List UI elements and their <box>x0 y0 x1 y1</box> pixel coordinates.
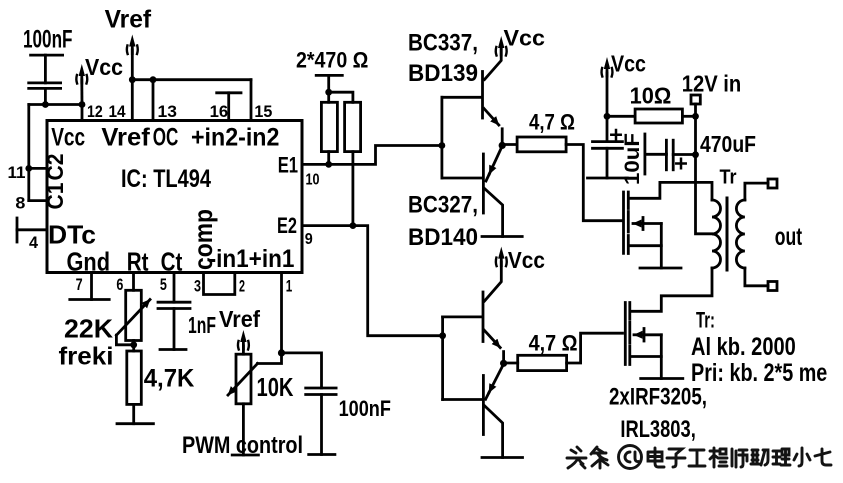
svg-text:Rt: Rt <box>127 247 149 277</box>
svg-text:2xIRF3205,: 2xIRF3205, <box>609 384 707 411</box>
svg-text:6: 6 <box>116 275 123 294</box>
node junction at pin 11 <box>25 165 32 172</box>
char zi <box>667 449 685 467</box>
terminal square out bottom <box>768 282 777 291</box>
node junction E2/470 <box>350 222 357 229</box>
wire pin 4 stub <box>17 228 47 231</box>
wire secondary top to out terminal <box>745 183 768 200</box>
terminal bar at pin 4 DTc <box>16 218 19 242</box>
wire pin 6 stub <box>132 273 135 291</box>
capacitor 470uF <box>645 134 696 174</box>
char dian <box>648 448 664 467</box>
char xiao <box>794 448 810 466</box>
svg-text:C1: C1 <box>42 182 68 209</box>
potentiometer 22K wiper arrow <box>116 300 150 336</box>
wire 470 ohm left to E1 <box>327 152 330 165</box>
ground bar 1nF <box>160 348 186 351</box>
svg-text:1: 1 <box>286 277 293 296</box>
wire Vref rail pins 14-13-15 <box>132 78 251 81</box>
wire 4,7 ohm to MOSFET 2 gate <box>567 333 623 363</box>
svg-text:BC327,: BC327, <box>408 192 478 219</box>
wire 12V rail down to center tap <box>696 116 713 234</box>
svg-text:+in2-in2: +in2-in2 <box>191 124 279 152</box>
svg-text:Tr: Tr <box>720 167 737 189</box>
wire pin 11 stub <box>29 167 47 170</box>
char tou <box>567 447 586 468</box>
svg-text:7: 7 <box>76 275 83 294</box>
svg-text:E2: E2 <box>277 213 297 238</box>
wire pin 8 stub <box>29 199 47 202</box>
node A driver pair 1 base bracket <box>439 142 446 149</box>
ground bar 10K <box>232 454 258 457</box>
terminal bar at pin 16 <box>217 91 241 94</box>
svg-text:470uF: 470uF <box>700 131 756 157</box>
svg-text:freki: freki <box>59 343 114 371</box>
node output pair 2 <box>500 360 507 367</box>
svg-text:2*470 Ω: 2*470 Ω <box>296 48 368 73</box>
power Vcc arrow (pair 2) <box>496 247 507 267</box>
svg-text:OC: OC <box>153 124 179 152</box>
wire 10 ohm to 12V node <box>682 115 695 118</box>
node junction E1/470 <box>325 161 332 168</box>
wire pins 3-2 bracket <box>204 273 235 295</box>
svg-text:4: 4 <box>29 233 39 252</box>
transistor Q2 BC327 (PNP) <box>483 146 502 237</box>
svg-text:100nF: 100nF <box>339 396 391 421</box>
node junction Vcc rail <box>604 113 611 120</box>
wire pin 7 stub <box>90 273 93 300</box>
wire pin 5 stub <box>173 273 176 303</box>
transistor Q4 (PNP, pair 2) <box>483 364 503 458</box>
char gong <box>689 450 705 466</box>
svg-text:4,7 Ω: 4,7 Ω <box>529 331 578 356</box>
ground bar 4,7K <box>117 422 153 425</box>
svg-text:10Ω: 10Ω <box>630 83 672 109</box>
node output pair 1 <box>499 142 506 149</box>
char li <box>773 449 790 465</box>
svg-text:Vref: Vref <box>219 306 260 332</box>
wire E2 to driver pair 2 <box>302 226 443 336</box>
terminal bar above 470 ohm resistors <box>316 74 342 77</box>
wire pin 15 to IC <box>250 80 253 121</box>
svg-text:Tr:: Tr: <box>696 308 715 333</box>
resistor 4,7K body <box>127 351 142 404</box>
node junction 22K/4,7K <box>130 341 137 348</box>
wire E1 to driver pair 1 <box>302 146 442 165</box>
svg-text:PWM control: PWM control <box>182 432 303 459</box>
svg-text:9: 9 <box>305 231 313 248</box>
svg-text:Vref: Vref <box>105 6 152 34</box>
wire pair 1 output to resistor <box>502 143 517 146</box>
svg-text:10K: 10K <box>257 372 294 402</box>
wire 22K bottom to 4,7K <box>132 341 135 352</box>
transformer Tr secondary winding <box>736 200 745 268</box>
potentiometer 10K wiper arrow <box>228 364 258 396</box>
ground bar pair 1 <box>482 235 522 238</box>
capacitor 470uF plus sign <box>676 159 685 168</box>
resistor 4,7 ohm (pair 2) body <box>518 355 567 370</box>
svg-text:16: 16 <box>210 102 229 121</box>
node junction 470 ohm tops <box>325 89 332 96</box>
wire base bracket pair 1 <box>440 97 443 178</box>
node junction at pin 13 <box>150 76 157 83</box>
node B driver pair 2 base bracket <box>439 332 446 339</box>
char zhu <box>751 450 768 465</box>
svg-text:Ct: Ct <box>161 247 183 277</box>
char cheng <box>710 448 727 467</box>
resistor 10 ohm body <box>635 109 682 123</box>
power Vref arrow (pin 14) <box>127 35 138 55</box>
wire 10K to ground <box>242 404 245 455</box>
wire pair 2 output to resistor <box>504 362 518 365</box>
svg-text:10: 10 <box>306 171 320 188</box>
svg-text:Vcc: Vcc <box>508 247 545 273</box>
wire jumper to second 470 ohm <box>329 92 353 102</box>
svg-text:10uF: 10uF <box>621 133 644 185</box>
wire Vcc node to 10 ohm <box>607 115 635 118</box>
transistor Q1 BC337 (NPN) <box>483 49 503 145</box>
wire from 100nF node to pin 12 <box>29 103 82 106</box>
wire pin 13 to IC <box>152 80 155 121</box>
node junction at pin 14 <box>129 76 136 83</box>
ground bar 100nF PWM <box>309 453 335 456</box>
svg-text:BD139: BD139 <box>408 60 478 87</box>
transistor Q5 MOSFET (upper) <box>624 182 713 268</box>
op-amp U1 IC TL494 body <box>47 121 302 273</box>
ground bar MOSFET 2 source <box>641 377 683 380</box>
svg-text:IC: TL494: IC: TL494 <box>121 165 211 193</box>
wire pin 12 to IC <box>81 105 84 121</box>
svg-text:22K: 22K <box>64 314 113 344</box>
watermark toutiao text (hand drawn strokes) <box>567 446 831 469</box>
ground bar pin 7 <box>70 298 109 301</box>
node junction at 100nF bottom <box>42 101 49 108</box>
wire 4,7K to ground <box>132 404 135 423</box>
char shi <box>732 449 747 467</box>
svg-text:Al kb. 2000: Al kb. 2000 <box>691 333 796 361</box>
wire pin 1 node to 100nF <box>282 353 322 388</box>
potentiometer 22K wiper hook wire <box>116 335 133 345</box>
svg-text:BD140: BD140 <box>408 224 478 251</box>
svg-text:out: out <box>775 223 803 251</box>
svg-text:Vcc: Vcc <box>611 51 646 77</box>
node junction 470uF/rail <box>692 151 699 158</box>
svg-text:C2: C2 <box>42 154 68 181</box>
svg-text:8: 8 <box>15 194 25 213</box>
capacitor 10uF <box>593 116 623 178</box>
capacitor 1nF <box>158 302 190 349</box>
at sign <box>619 446 642 469</box>
svg-text:Gnd: Gnd <box>67 247 111 277</box>
transformer core <box>726 198 729 270</box>
svg-text:Vcc: Vcc <box>504 26 546 51</box>
svg-text:Pri: kb. 2*5 me: Pri: kb. 2*5 me <box>691 359 827 387</box>
ground bar pair 2 <box>482 456 523 459</box>
terminal square out top <box>768 179 777 188</box>
capacitor 100nF (PWM) <box>306 388 336 455</box>
potentiometer 22K body <box>126 290 142 340</box>
resistor 4,7 ohm (pair 1) body <box>517 137 566 152</box>
svg-text:IRL3803,: IRL3803, <box>620 416 695 443</box>
node junction at pin 12 <box>79 101 86 108</box>
svg-text:1nF: 1nF <box>188 312 216 338</box>
char qi <box>815 449 831 465</box>
svg-text:4,7 Ω: 4,7 Ω <box>529 110 575 135</box>
wire left vertical to pins 11 and 8 <box>27 105 30 201</box>
power Vcc arrow (right rail) <box>602 57 613 77</box>
capacitor 10uF plus sign <box>611 130 620 140</box>
svg-text:Vref: Vref <box>101 124 150 152</box>
svg-text:DTc: DTc <box>48 220 96 250</box>
svg-text:11: 11 <box>8 163 26 182</box>
svg-text:3: 3 <box>194 277 201 296</box>
transformer Tr primary winding <box>712 200 721 268</box>
transistor Q3 (NPN, pair 2) <box>483 262 504 363</box>
wire wiper to pin 1 node <box>258 353 282 364</box>
svg-text:-in1+in1: -in1+in1 <box>209 245 295 273</box>
svg-text:100nF: 100nF <box>23 26 73 54</box>
wire 470 ohm right to E2 <box>351 152 354 226</box>
wire pin 1 down <box>280 273 283 353</box>
wire 4,7 ohm to MOSFET 1 gate <box>566 145 622 221</box>
ground bar MOSFET 1 source <box>640 267 681 270</box>
terminal square 12V in <box>691 95 700 104</box>
potentiometer 10K body <box>236 354 251 404</box>
svg-text:Vcc: Vcc <box>85 54 123 80</box>
power Vref arrow (PWM pot) <box>238 330 249 350</box>
svg-text:12: 12 <box>87 102 103 121</box>
svg-text:15: 15 <box>254 102 272 121</box>
svg-text:13: 13 <box>158 102 177 121</box>
resistor 470 ohm (right) body <box>345 102 361 151</box>
svg-text:Vcc: Vcc <box>51 124 85 152</box>
wire base bracket pair 2 <box>441 317 444 400</box>
svg-text:5: 5 <box>160 275 167 294</box>
power Vcc arrow (top-left, pin 12) <box>76 64 87 84</box>
capacitor 100nF (input bypass) <box>29 55 63 104</box>
svg-text:E1: E1 <box>278 152 298 177</box>
svg-text:4,7K: 4,7K <box>144 365 195 393</box>
wire pin 14 to IC <box>131 80 134 121</box>
wire 12V terminal down <box>694 104 697 116</box>
wire secondary bottom to out terminal <box>745 268 768 286</box>
wire pin 16 to IC <box>227 93 230 121</box>
power Vcc arrow (pair 1) <box>496 36 507 56</box>
wire bar to resistors <box>327 75 330 102</box>
ground bar 10uF <box>588 177 628 180</box>
svg-text:14: 14 <box>109 102 127 121</box>
svg-text:12V in: 12V in <box>682 71 742 97</box>
char tiao <box>591 447 608 468</box>
svg-text:BC337,: BC337, <box>408 30 478 57</box>
node junction pin 1 <box>278 349 285 356</box>
node junction 12V rail <box>692 113 699 120</box>
transistor Q6 MOSFET (lower) <box>625 268 712 379</box>
resistor 470 ohm (left) body <box>321 102 337 151</box>
svg-text:2: 2 <box>239 277 245 296</box>
